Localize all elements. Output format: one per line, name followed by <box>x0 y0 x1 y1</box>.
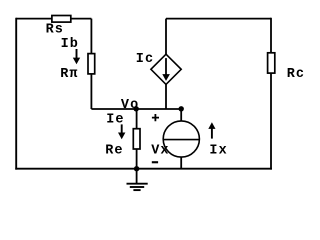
dependent current source diamond <box>151 54 181 84</box>
svg-text:Vx: Vx <box>151 143 169 158</box>
wire top-middle horizontal <box>166 18 271 20</box>
wire Re branch vertical <box>136 109 138 169</box>
resistor Rpi <box>88 54 95 74</box>
wire left vertical side <box>15 18 17 170</box>
wire Vx branch vertical <box>180 109 182 169</box>
svg-text:Rπ: Rπ <box>60 67 78 82</box>
ground symbol <box>127 169 148 190</box>
svg-text:Ix: Ix <box>209 143 227 158</box>
arrow Ib (down) <box>73 49 80 64</box>
arrow Ie (down) <box>118 124 125 139</box>
resistor Re <box>133 129 140 149</box>
wire top-left horizontal (Rs branch) <box>16 18 91 20</box>
svg-text:Re: Re <box>105 143 123 158</box>
wire Rpi branch vertical <box>90 19 92 109</box>
arrow Ix (up) <box>208 122 215 138</box>
junction dot Vo/Re <box>134 106 139 111</box>
voltage source Vx circle <box>163 121 199 157</box>
label minus sign <box>152 161 158 163</box>
wire middle horizontal (Vo node) <box>91 108 181 110</box>
junction dot Vx top <box>179 106 184 111</box>
svg-text:Ic: Ic <box>136 52 154 67</box>
resistor Rc <box>268 53 275 73</box>
wire dependent-source branch vertical <box>165 19 167 109</box>
resistor Rs <box>52 16 71 23</box>
svg-text:Rs: Rs <box>46 22 64 37</box>
junction dot ground <box>134 166 139 171</box>
label plus sign <box>152 114 159 121</box>
wire bottom horizontal <box>15 168 272 170</box>
wire Rc branch right vertical <box>270 18 272 170</box>
svg-text:Rc: Rc <box>287 67 305 82</box>
